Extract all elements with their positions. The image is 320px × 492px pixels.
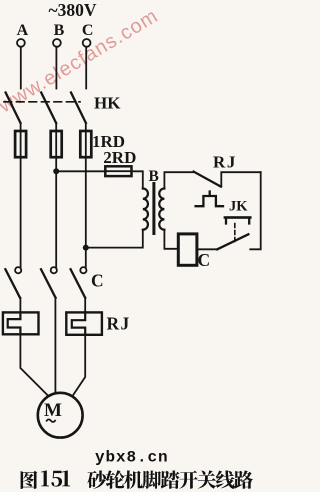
contactor pole B blade	[41, 269, 56, 298]
JK blade	[217, 234, 248, 249]
thermal relay RJ heater A	[3, 312, 39, 334]
svg-text:C: C	[82, 22, 94, 39]
transformer secondary coil	[159, 189, 164, 230]
wire phase C middle	[85, 157, 87, 267]
svg-text:C: C	[198, 250, 211, 270]
wire C contact to heater	[84, 298, 86, 313]
terminal A circle	[17, 39, 25, 47]
wire 2RD to transformer primary top	[132, 171, 143, 188]
motor tilde	[47, 419, 55, 422]
wire phase B middle	[55, 157, 57, 267]
thermal relay RJ heater C	[66, 312, 102, 334]
caption glyph 脚	[143, 471, 162, 489]
caption glyph 开	[179, 471, 198, 489]
wire phase A middle	[20, 157, 22, 267]
contact RJ right stub	[221, 172, 260, 186]
switch HK pole A blade	[6, 93, 21, 124]
wire phase C top	[85, 47, 87, 89]
wire primary bottom to phase C	[86, 230, 143, 248]
wire secondary bottom to coil C	[164, 230, 178, 249]
contactor pole C circle	[80, 267, 86, 273]
fuse 1RD phase B	[51, 131, 62, 157]
coil C rect	[178, 234, 197, 265]
svg-text:A: A	[17, 22, 29, 39]
switch HK linkage dashed	[4, 101, 80, 103]
caption glyph 路	[234, 470, 253, 488]
contact RJ blade	[194, 172, 221, 187]
caption glyph 机	[124, 470, 143, 489]
wire A contact to heater	[19, 298, 21, 313]
wire coil C to JK blade	[197, 248, 217, 250]
wire B junction to 2RD	[56, 170, 105, 172]
thermal element symbol under RJ contact	[196, 192, 223, 207]
wire A blade to fuse	[20, 123, 22, 131]
wire right side down	[250, 172, 260, 249]
caption glyph 图	[21, 471, 38, 489]
wire C blade to fuse	[85, 123, 87, 131]
fuse 1RD phase A	[15, 131, 26, 157]
caption glyph 轮	[106, 470, 125, 489]
wire secondary top	[164, 172, 193, 188]
switch HK pole C blade	[71, 93, 86, 124]
svg-text:C: C	[91, 271, 104, 291]
svg-text:HK: HK	[94, 94, 121, 113]
foot switch JK pedal bar	[226, 218, 249, 224]
JK link dashed	[234, 224, 236, 242]
svg-text:2RD: 2RD	[103, 148, 136, 167]
svg-text:RJ: RJ	[213, 153, 237, 172]
svg-text:JK: JK	[229, 199, 248, 215]
wire B contact down	[54, 298, 56, 394]
contactor pole A circle	[15, 267, 21, 273]
transformer B primary coil	[143, 189, 148, 230]
contactor pole B circle	[51, 267, 57, 273]
transformer core	[152, 184, 155, 234]
node junction on B	[53, 168, 59, 174]
wire B blade to fuse	[55, 123, 57, 131]
wire A to motor	[20, 334, 48, 395]
wire C to motor	[73, 335, 86, 396]
svg-text:B: B	[54, 22, 65, 39]
svg-text:~380V: ~380V	[49, 0, 97, 20]
caption glyph 5	[51, 471, 62, 487]
caption glyph 砂	[87, 470, 106, 489]
wire phase B top	[55, 47, 57, 89]
svg-text:B: B	[149, 168, 159, 185]
switch HK pole B blade	[41, 93, 56, 124]
caption glyph 1	[62, 470, 70, 486]
terminal B circle	[53, 39, 61, 47]
caption glyph 踏	[161, 470, 180, 488]
svg-text:ybx8.cn: ybx8.cn	[95, 449, 169, 467]
fuse 1RD phase C	[80, 131, 91, 157]
contactor pole A blade	[5, 269, 20, 298]
fuse 2RD	[105, 166, 131, 176]
svg-text:RJ: RJ	[107, 314, 131, 334]
terminal C circle	[83, 39, 91, 47]
caption glyph 线	[216, 470, 235, 488]
svg-text:M: M	[44, 400, 62, 421]
contactor pole C blade	[71, 269, 86, 298]
caption glyph 关	[198, 470, 217, 488]
caption glyph 1	[41, 470, 49, 486]
wire phase A top	[20, 47, 22, 89]
motor M circle	[38, 393, 83, 438]
node junction on C	[83, 245, 89, 251]
